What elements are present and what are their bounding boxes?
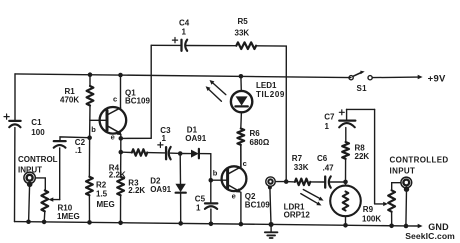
svg-text:e: e bbox=[232, 192, 236, 201]
resistor R5 bbox=[235, 17, 287, 49]
capacitor C4 bbox=[172, 18, 236, 51]
wire C4 branch top left bbox=[151, 44, 181, 46]
svg-text:b: b bbox=[91, 125, 96, 134]
wire D1 to Q2 base bbox=[210, 154, 212, 181]
svg-text:C7: C7 bbox=[324, 113, 335, 122]
svg-text:Q2: Q2 bbox=[245, 192, 256, 201]
svg-text:1: 1 bbox=[182, 28, 187, 37]
svg-text:.1: .1 bbox=[75, 146, 82, 155]
svg-text:CONTROLLED: CONTROLLED bbox=[390, 156, 449, 165]
svg-text:S1: S1 bbox=[357, 84, 368, 93]
svg-text:2.2K: 2.2K bbox=[109, 171, 126, 180]
svg-text:.47: .47 bbox=[323, 164, 335, 173]
node R4 junction bbox=[119, 150, 124, 155]
svg-text:C1: C1 bbox=[31, 118, 42, 127]
node LED top bbox=[239, 74, 244, 79]
svg-text:1MEG: 1MEG bbox=[57, 212, 80, 221]
resistor R3 bbox=[117, 152, 145, 223]
wire C7 top to R9 wiper bbox=[347, 109, 388, 206]
connector CONTROLLED INPUT jack bbox=[390, 156, 449, 226]
node Q1 collector top bbox=[118, 73, 123, 78]
node bottom rail dots bbox=[26, 219, 408, 228]
wire +9V arrow bbox=[372, 73, 446, 84]
svg-text:1.5: 1.5 bbox=[96, 189, 108, 198]
photoresistor LDR1 bbox=[284, 182, 361, 225]
wire +9V top rail bbox=[15, 74, 351, 78]
resistor R1 bbox=[60, 75, 93, 138]
node C2 junction bbox=[87, 135, 92, 140]
wire C4 branch left vertical bbox=[150, 45, 152, 138]
svg-text:2.2K: 2.2K bbox=[128, 186, 145, 195]
svg-text:OA91: OA91 bbox=[150, 185, 171, 194]
switch S1 bbox=[349, 71, 372, 93]
wire C1 to bottom rail bbox=[14, 128, 16, 222]
connector middle jack bbox=[266, 177, 286, 224]
svg-text:c: c bbox=[243, 159, 247, 168]
svg-text:C6: C6 bbox=[317, 154, 328, 163]
svg-text:ORP12: ORP12 bbox=[284, 211, 311, 220]
svg-text:INPUT: INPUT bbox=[18, 165, 42, 174]
svg-text:e: e bbox=[111, 133, 115, 142]
node R7 junction bbox=[284, 179, 289, 184]
svg-text:R2: R2 bbox=[96, 181, 107, 190]
svg-text:100K: 100K bbox=[362, 215, 381, 224]
svg-text:SeekIC.com: SeekIC.com bbox=[405, 231, 455, 241]
resistor R6 bbox=[237, 129, 269, 167]
svg-text:C4: C4 bbox=[179, 18, 190, 27]
svg-text:470K: 470K bbox=[60, 95, 79, 104]
svg-text:1: 1 bbox=[196, 204, 201, 213]
wire GND arrow bbox=[406, 222, 449, 232]
svg-text:OA91: OA91 bbox=[185, 134, 206, 143]
transistor Q1 bbox=[90, 75, 150, 152]
transistor Q2 bbox=[211, 145, 270, 224]
ground symbol bbox=[265, 224, 278, 238]
svg-text:R7: R7 bbox=[292, 154, 303, 163]
wire ground bottom rail bbox=[15, 222, 407, 226]
svg-text:C5: C5 bbox=[195, 194, 206, 203]
node R1 top bbox=[88, 72, 93, 77]
svg-text:c: c bbox=[113, 95, 117, 104]
svg-text:b: b bbox=[213, 168, 218, 177]
node D1 D2 junction bbox=[178, 151, 183, 156]
svg-text:1: 1 bbox=[162, 134, 167, 143]
diode D1 bbox=[180, 126, 211, 159]
node Q2 base bbox=[209, 178, 214, 183]
svg-text:680Ω: 680Ω bbox=[250, 138, 270, 147]
capacitor C2 bbox=[54, 137, 90, 200]
node Q1 emitter bbox=[119, 136, 124, 141]
wire C2 to R10 wiper arrow bbox=[48, 197, 59, 201]
svg-text:R9: R9 bbox=[363, 205, 374, 214]
diode D2 bbox=[150, 154, 186, 224]
potentiometer R10 bbox=[35, 178, 79, 222]
capacitor C7 bbox=[324, 109, 355, 131]
svg-text:1: 1 bbox=[325, 122, 330, 131]
LED LED1 bbox=[206, 76, 285, 128]
svg-text:R6: R6 bbox=[250, 129, 261, 138]
svg-text:BC109: BC109 bbox=[125, 96, 150, 105]
potentiometer R9 bbox=[362, 183, 401, 226]
svg-text:INPUT: INPUT bbox=[390, 167, 416, 176]
capacitor C6 bbox=[317, 154, 346, 188]
wire C4 branch right vertical bbox=[285, 46, 287, 182]
svg-text:MEG: MEG bbox=[97, 200, 115, 209]
svg-text:22K: 22K bbox=[355, 152, 370, 161]
capacitor C5 bbox=[195, 180, 218, 224]
resistor R2 bbox=[86, 138, 115, 223]
svg-text:+9V: +9V bbox=[428, 73, 446, 84]
resistor R7 bbox=[286, 154, 325, 185]
resistor R8 bbox=[342, 128, 369, 182]
svg-text:BC109: BC109 bbox=[245, 201, 270, 210]
capacitor C3 bbox=[158, 126, 180, 159]
wire emitter to C4 branch bbox=[121, 137, 151, 139]
svg-text:R5: R5 bbox=[238, 17, 249, 26]
svg-text:33K: 33K bbox=[294, 163, 309, 172]
svg-text:CONTROL: CONTROL bbox=[18, 155, 58, 164]
capacitor C1 bbox=[4, 114, 45, 137]
node C6 R8 LDR junction bbox=[343, 180, 348, 185]
wire left rail vertical bbox=[14, 74, 16, 121]
svg-text:100: 100 bbox=[31, 128, 45, 137]
resistor R4 bbox=[109, 149, 166, 179]
svg-text:33K: 33K bbox=[235, 29, 250, 38]
connector CONTROL INPUT jack bbox=[18, 155, 58, 222]
svg-text:TIL209: TIL209 bbox=[256, 90, 285, 99]
